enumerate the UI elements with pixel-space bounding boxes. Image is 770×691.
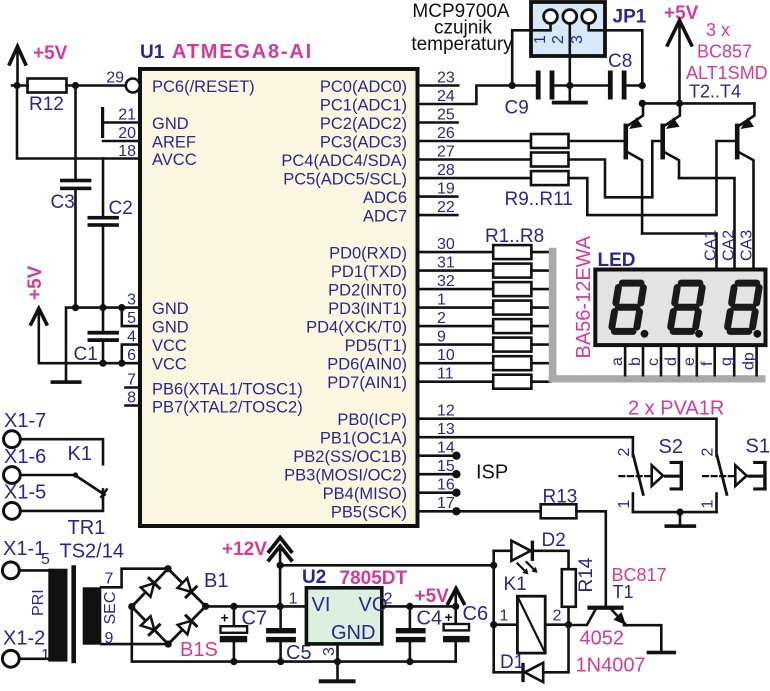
svg-text:dp: dp — [741, 352, 758, 370]
wire JP1 pin 1 to C9 node — [512, 24, 550, 86]
svg-text:28: 28 — [437, 162, 455, 179]
capacitor C4 wires — [409, 606, 412, 661]
junction dot rail C8 drop — [639, 100, 646, 107]
transistor T2 collector — [628, 153, 642, 234]
capacitor C2 — [88, 216, 119, 227]
diode D1 triangle — [525, 663, 544, 682]
wire C3 to GND row — [74, 190, 77, 307]
svg-text:C8: C8 — [608, 51, 632, 72]
svg-text:D2: D2 — [542, 530, 566, 551]
power +5V symbol at C6 — [448, 589, 464, 604]
svg-text:24: 24 — [437, 88, 455, 105]
svg-text:X1-6: X1-6 — [4, 446, 46, 468]
ground bar JP1 pin 2 — [552, 101, 588, 105]
svg-text:a: a — [609, 357, 626, 366]
bridge B1 edges — [132, 569, 206, 644]
transistor T4 emitter arrow — [741, 117, 755, 129]
capacitor C6 polar top plate — [444, 624, 469, 630]
ground rail junction dots — [230, 658, 413, 665]
svg-text:PB1(OC1A): PB1(OC1A) — [320, 430, 407, 448]
svg-text:4: 4 — [127, 329, 136, 346]
capacitor C6 bottom wire — [454, 642, 457, 661]
diode D1 wire left — [494, 671, 522, 674]
svg-text:2: 2 — [553, 608, 562, 625]
svg-text:+5V: +5V — [33, 43, 68, 64]
svg-text:PD4(XCK/T0): PD4(XCK/T0) — [306, 319, 407, 337]
svg-text:27: 27 — [437, 144, 455, 161]
svg-text:1: 1 — [500, 608, 509, 625]
junction dot relay feed — [490, 562, 497, 569]
bridge diode bottom-left — [141, 616, 160, 635]
led D2 wire left — [494, 549, 512, 552]
svg-text:R13: R13 — [543, 487, 578, 508]
svg-text:1: 1 — [289, 591, 298, 608]
power +5V symbol left — [31, 309, 47, 364]
svg-text:2: 2 — [437, 310, 446, 327]
regulator U2 body — [306, 588, 381, 644]
bridge corner dots — [128, 565, 209, 648]
relay K1 coil diagonal — [517, 596, 545, 653]
pin 8 stub — [126, 404, 141, 407]
svg-text:PD5(T1): PD5(T1) — [345, 337, 407, 355]
wire pin 13 to S2 — [418, 437, 633, 456]
svg-text:PC5(ADC5/SCL): PC5(ADC5/SCL) — [283, 171, 407, 189]
svg-text:2: 2 — [700, 448, 717, 457]
ground bar switches — [665, 524, 697, 528]
pin 14 ISP stub — [418, 454, 457, 457]
svg-text:U1: U1 — [140, 42, 165, 63]
capacitor C8 — [608, 71, 627, 100]
wire pin 24 to sensor node — [418, 86, 513, 105]
svg-text:PC1(ADC1): PC1(ADC1) — [320, 97, 407, 115]
svg-text:T2..T4: T2..T4 — [689, 82, 741, 102]
terminal X1-7 circle — [4, 431, 21, 448]
terminal X1-6 circle — [4, 467, 21, 484]
svg-text:17: 17 — [437, 495, 455, 512]
svg-text:X1-1: X1-1 — [3, 538, 45, 560]
diode D1 cathode bar — [521, 663, 524, 682]
power +5V symbol top-left — [10, 47, 26, 86]
relay K1 coil box — [517, 596, 545, 653]
switch S2 actuator triangle — [652, 465, 663, 486]
svg-text:PC0(ADC0): PC0(ADC0) — [320, 78, 407, 96]
resistor R7 — [493, 356, 531, 370]
svg-text:PRI: PRI — [30, 589, 47, 616]
relay K1 contact arm tick — [101, 489, 107, 497]
junction dot +5V/R12 — [13, 82, 20, 89]
switch S2 contact — [634, 456, 644, 494]
junction dot node B — [565, 621, 572, 628]
svg-text:8: 8 — [127, 390, 136, 407]
svg-text:CA1: CA1 — [703, 230, 720, 261]
svg-text:SEC: SEC — [102, 592, 119, 625]
pin 29 inversion circle — [126, 79, 140, 93]
svg-text:PB0(ICP): PB0(ICP) — [337, 411, 407, 429]
pin 16 ISP stub — [418, 491, 457, 494]
transistor T4 emitter — [740, 103, 755, 125]
pin 22 stub — [418, 214, 458, 217]
switch S1 button cap — [748, 461, 767, 491]
wire pin 12 to S1 — [418, 419, 717, 456]
bridge diode top-left — [141, 578, 160, 597]
capacitor C7 polar top plate — [221, 626, 248, 633]
ground bar for pin 21 — [101, 107, 104, 138]
wire D2 to R14 — [534, 551, 568, 569]
svg-text:VCC: VCC — [152, 356, 187, 374]
switch S2 actuator dashes — [619, 475, 650, 477]
transistor T1 body — [587, 606, 623, 610]
switch S2 pin 1 stub — [632, 494, 635, 513]
wire X1-7 to relay contact upper — [20, 439, 103, 464]
svg-text:+5V: +5V — [25, 265, 46, 300]
wire T1 emitter to ground — [624, 625, 661, 651]
led D2 triangle — [511, 541, 530, 561]
led D2 cathode bar — [531, 541, 534, 561]
svg-text:GND: GND — [152, 300, 189, 318]
junction dot JP1-2 ground node — [566, 82, 573, 89]
svg-text:PB2(SS/OC1B): PB2(SS/OC1B) — [293, 448, 407, 466]
wire pin 17 to R13 — [418, 510, 541, 513]
power +12V symbol double arrow — [269, 538, 291, 607]
transistor T2 emitter arrow — [629, 117, 643, 129]
svg-text:PB7(XTAL2/TOSC2): PB7(XTAL2/TOSC2) — [152, 399, 303, 417]
capacitor C7 wires — [233, 606, 236, 661]
svg-text:7805DT: 7805DT — [340, 568, 408, 589]
wire X1-2 to primary — [19, 657, 48, 660]
svg-text:C6: C6 — [463, 603, 489, 625]
capacitor C9 wires — [512, 84, 570, 87]
resistor R10 — [531, 153, 569, 167]
wires R1..R8 to bus — [531, 252, 550, 382]
ground stub switches — [679, 512, 682, 524]
svg-text:PC3(ADC3): PC3(ADC3) — [320, 134, 407, 152]
svg-text:R14: R14 — [576, 557, 597, 592]
svg-text:19: 19 — [437, 181, 455, 198]
wire T2 collector to CA1 — [642, 234, 716, 270]
ground bar U2 — [319, 679, 356, 683]
pin 7 stub — [126, 386, 141, 389]
transformer core — [71, 565, 76, 663]
svg-text:5: 5 — [41, 551, 50, 568]
capacitor C5 wires — [279, 606, 282, 661]
svg-text:g: g — [718, 357, 735, 366]
svg-text:1: 1 — [700, 500, 717, 509]
wire pin 4 link — [122, 345, 140, 364]
svg-text:T1: T1 — [613, 582, 634, 602]
svg-text:2: 2 — [384, 591, 393, 608]
svg-text:3: 3 — [569, 35, 586, 44]
resistor R3 — [493, 282, 531, 296]
junction dot C7 top — [230, 603, 237, 610]
svg-text:B1S: B1S — [180, 639, 218, 661]
wire R13 to T1 base — [576, 511, 605, 605]
svg-text:PD0(RXD): PD0(RXD) — [329, 245, 407, 263]
svg-text:+: + — [221, 610, 229, 626]
capacitor C5 plates — [266, 628, 296, 642]
svg-text:12: 12 — [437, 403, 455, 420]
transformer TR1 secondary winding — [83, 587, 102, 644]
wire reset node down through C3 to GND row — [74, 86, 77, 180]
svg-text:TS2/14: TS2/14 — [60, 541, 124, 563]
wire X1-5 to relay contact lower — [20, 489, 103, 511]
svg-text:22: 22 — [437, 199, 455, 216]
display digit 3 decimal point — [753, 330, 761, 338]
svg-text:2 x PVA1R: 2 x PVA1R — [628, 398, 724, 420]
svg-text:VCC: VCC — [152, 337, 187, 355]
resistor R9 — [531, 134, 569, 148]
wire VCC row pin 6 — [39, 362, 140, 365]
svg-text:PC4(ADC4/SDA): PC4(ADC4/SDA) — [281, 152, 407, 170]
resistor R1 — [493, 245, 531, 259]
resistor R13 — [541, 504, 577, 518]
svg-text:14: 14 — [437, 440, 455, 457]
junction dot +5V C6 node — [452, 603, 459, 610]
diode D1 wire right to node B — [543, 625, 568, 673]
wire secondary pin 9 to bridge bottom — [101, 643, 168, 646]
svg-text:7: 7 — [127, 372, 136, 389]
switch S1 actuator dashes — [703, 475, 734, 477]
switch S1 contact — [717, 456, 727, 494]
junction dots VCC row — [99, 360, 106, 367]
resistor R11 — [531, 171, 569, 185]
junction dot switch common — [676, 508, 683, 515]
relay K1 coil pin2 wire — [545, 623, 568, 626]
regulator GND stub — [336, 644, 339, 662]
svg-text:2: 2 — [616, 448, 633, 457]
transistor T1 collector — [569, 610, 596, 625]
svg-text:20: 20 — [118, 125, 136, 142]
pin 23 stub — [418, 84, 459, 87]
svg-text:f: f — [699, 361, 716, 366]
wire pin 5 link — [122, 308, 140, 327]
pin 19 stub — [418, 195, 458, 198]
transistor T3 emitter arrow — [666, 117, 680, 129]
svg-text:BA56-12EWA: BA56-12EWA — [573, 235, 595, 358]
svg-text:ALT1SMD: ALT1SMD — [686, 63, 768, 83]
svg-text:1N4007: 1N4007 — [576, 655, 646, 677]
wire AVCC down through C2 — [102, 159, 105, 217]
svg-text:ADC7: ADC7 — [363, 208, 407, 226]
svg-text:PD3(INT1): PD3(INT1) — [328, 300, 407, 318]
terminal X1-2 circle — [2, 650, 19, 667]
wire R12 to reset pin 29 — [67, 84, 126, 87]
svg-text:11: 11 — [437, 366, 454, 383]
svg-text:ATMEGA8-AI: ATMEGA8-AI — [172, 41, 313, 63]
transistor T2 emitter — [628, 103, 643, 125]
svg-text:X1-5: X1-5 — [4, 482, 46, 504]
resistor R8 — [493, 375, 531, 389]
wire ground bar to pin 21 — [103, 121, 140, 124]
svg-text:PD7(AIN1): PD7(AIN1) — [327, 374, 407, 392]
junction dot C4 top — [406, 603, 413, 610]
svg-text:d: d — [663, 357, 680, 366]
junction dot rail +5V stem — [676, 100, 683, 107]
capacitor C6 bottom plate — [443, 636, 470, 642]
JP1 pin circle 3 — [582, 10, 596, 24]
svg-text:TR1: TR1 — [68, 517, 106, 539]
wire JP1 pin 2 down to ground — [568, 24, 571, 102]
svg-text:CA3: CA3 — [739, 230, 756, 261]
svg-text:B1: B1 — [204, 570, 228, 592]
ground symbol stub U2 — [336, 662, 339, 680]
svg-text:+: + — [445, 609, 453, 625]
terminal X1-1 circle — [2, 562, 19, 579]
svg-text:c: c — [645, 358, 662, 366]
ground bar lower-left — [51, 380, 82, 384]
wire switch common — [633, 511, 717, 514]
svg-text:32: 32 — [437, 273, 455, 290]
wire C2 to GND row — [102, 227, 105, 308]
wire pin 27 to R10 — [418, 158, 532, 161]
wire X1-1 to primary — [19, 569, 48, 572]
svg-text:26: 26 — [437, 125, 455, 142]
svg-text:GND: GND — [152, 115, 189, 133]
svg-text:C7: C7 — [242, 608, 268, 630]
transistor T3 emitter — [665, 103, 680, 125]
svg-text:C1: C1 — [74, 344, 98, 365]
led D2 emission arrows — [518, 562, 538, 575]
wires pins 30-11 to R1..R8 — [418, 252, 494, 382]
svg-text:PD1(TXD): PD1(TXD) — [331, 263, 407, 281]
svg-text:GND: GND — [152, 319, 189, 337]
relay K1 contact arm pivot dot — [73, 472, 78, 477]
pin 15 ISP stub — [418, 473, 457, 476]
transistor T4 body — [735, 124, 740, 160]
switch S1 pin 1 stub — [715, 494, 718, 513]
ic U1 body — [140, 69, 418, 526]
svg-text:PC6(/RESET): PC6(/RESET) — [152, 78, 255, 96]
svg-text:PB5(SCK): PB5(SCK) — [331, 504, 407, 522]
svg-text:C9: C9 — [505, 98, 529, 119]
svg-text:1: 1 — [616, 500, 633, 509]
svg-text:+5V: +5V — [415, 586, 450, 607]
transistor T4 collector — [740, 153, 754, 270]
svg-text:21: 21 — [118, 107, 136, 124]
svg-text:4052: 4052 — [580, 628, 625, 650]
svg-text:CA2: CA2 — [721, 230, 738, 261]
wire X1-6 to contact arm — [20, 474, 74, 477]
svg-text:3: 3 — [321, 647, 338, 656]
wire U2 VO row — [382, 605, 456, 608]
svg-text:temperatury: temperatury — [411, 34, 513, 55]
power +5V symbol rail — [668, 21, 692, 104]
junction dot +12V rail — [277, 562, 284, 569]
bridge diode bottom-right — [178, 616, 197, 635]
svg-text:C4: C4 — [417, 608, 443, 630]
svg-text:R9..R11: R9..R11 — [505, 189, 573, 210]
svg-text:X1-7: X1-7 — [4, 410, 46, 432]
pin 25 stub — [418, 121, 458, 124]
capacitor C7 bottom plate — [220, 636, 247, 642]
svg-text:25: 25 — [437, 107, 455, 124]
svg-text:1: 1 — [437, 292, 446, 309]
svg-text:31: 31 — [437, 255, 455, 272]
svg-text:PD6(AIN0): PD6(AIN0) — [327, 356, 407, 374]
terminal X1-5 circle — [4, 503, 21, 520]
svg-text:PC2(ADC2): PC2(ADC2) — [320, 115, 407, 133]
svg-text:R12: R12 — [29, 94, 64, 115]
JP1 pin circle 2 — [563, 10, 577, 24]
svg-text:9: 9 — [437, 329, 446, 346]
resistor R4 — [493, 301, 531, 315]
svg-text:K1: K1 — [68, 443, 92, 465]
svg-text:U2: U2 — [302, 567, 326, 588]
capacitor C6 stem — [454, 590, 457, 624]
JP1 pin circle 1 — [544, 10, 558, 24]
svg-text:VI: VI — [312, 594, 331, 616]
svg-text:AVCC: AVCC — [152, 151, 197, 169]
svg-text:GND: GND — [331, 622, 375, 644]
wire secondary pin 7 to bridge top — [101, 569, 168, 588]
gray segment bus horizontal — [549, 375, 766, 382]
resistor R12 — [28, 79, 67, 93]
capacitor C1 wires — [102, 308, 105, 364]
junction dots GND row — [72, 304, 79, 311]
ground bar T1 emitter — [647, 651, 677, 655]
wire R11 to T4 base — [569, 141, 735, 215]
junction dot C5 top — [277, 603, 284, 610]
display digit 1 — [612, 283, 644, 331]
wire R9 to T2 base — [569, 140, 624, 143]
transistor T1 emitter — [612, 610, 627, 625]
svg-text:C3: C3 — [51, 192, 75, 213]
display body — [595, 270, 765, 346]
wire bridge minus to ground rail — [132, 607, 456, 662]
transistor T1 emitter arrow — [613, 612, 626, 625]
capacitor C8 wires — [570, 84, 643, 87]
svg-text:b: b — [627, 357, 644, 366]
transformer TR1 primary winding — [48, 569, 67, 662]
relay cluster left vertical — [492, 551, 495, 673]
resistor R14 — [562, 569, 576, 607]
resistor R6 — [493, 338, 531, 352]
switch S1 actuator triangle — [735, 465, 746, 486]
display digit 3 — [728, 283, 760, 331]
gray segment bus vertical — [549, 248, 557, 383]
display digit 2 — [671, 283, 703, 331]
display segment pins to bus — [625, 345, 757, 375]
resistor R2 — [493, 264, 531, 278]
capacitor C3 — [60, 179, 91, 191]
bridge diode top-right — [178, 578, 197, 597]
junction dot sensor node — [509, 82, 516, 89]
wire pin 26 to R9 — [418, 140, 532, 143]
wire R14 to node B — [567, 607, 570, 625]
svg-text:PD2(INT0): PD2(INT0) — [328, 282, 407, 300]
junction dot R12/C3 node — [72, 82, 79, 89]
transistor T3 collector — [665, 153, 679, 179]
svg-text:+12V: +12V — [222, 539, 267, 560]
svg-text:e: e — [681, 357, 698, 366]
svg-text:15: 15 — [437, 458, 455, 475]
svg-text:JP1: JP1 — [613, 7, 647, 28]
wire GND row pin 3 — [66, 308, 140, 381]
svg-text:23: 23 — [437, 70, 455, 87]
capacitor C9 — [536, 71, 555, 100]
resistor R5 — [493, 319, 531, 333]
svg-text:ADC6: ADC6 — [363, 189, 407, 207]
svg-text:PB6(XTAL1/TOSC1): PB6(XTAL1/TOSC1) — [152, 381, 303, 399]
svg-text:10: 10 — [437, 347, 455, 364]
wire T3 collector to CA2 — [679, 178, 735, 269]
display digit 1 decimal point — [641, 330, 649, 338]
svg-text:S2: S2 — [659, 436, 683, 458]
svg-text:13: 13 — [437, 421, 455, 438]
svg-text:D1: D1 — [500, 652, 524, 673]
transistor T3 body — [660, 124, 665, 160]
display digit 2 decimal point — [695, 330, 703, 338]
svg-text:K1: K1 — [504, 574, 527, 595]
